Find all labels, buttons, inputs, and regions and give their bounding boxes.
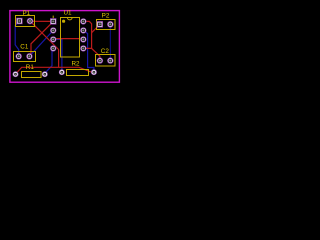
connector P2 (97, 12, 116, 29)
pad R1.2 (42, 71, 48, 77)
resistor R2 (67, 61, 89, 76)
pad U1.6 (80, 36, 86, 42)
svg-text:U1: U1 (63, 10, 72, 17)
svg-text:C1: C1 (20, 44, 29, 51)
capacitor C1 (14, 44, 36, 62)
connector P1 (16, 10, 35, 27)
pad R2.1 (59, 69, 65, 75)
wire red P1.2 to U1 pin1 (30, 20, 53, 22)
wire blue P1.1 to C1.1 (15, 21, 19, 56)
pad U1.1 (square) (50, 18, 56, 24)
pad P1.1 (square) (16, 18, 22, 24)
svg-text:R2: R2 (71, 61, 80, 68)
pad U1.8 (80, 18, 86, 24)
wire blue U1 pin7 to R2.2 (83, 30, 94, 72)
wire red P1.2 to bottom bus (30, 21, 59, 67)
wire blue C1.2 to U1 pin2 (29, 30, 53, 56)
pad U1.4 (50, 45, 56, 51)
wire blue P2.2 to C2.2 (109, 24, 111, 60)
pad R2.2 (91, 69, 97, 75)
wire blue U1 pin3 to R2.1 (53, 39, 62, 72)
pad U1.5 (80, 45, 86, 51)
pad U1.2 (50, 27, 56, 33)
wire red bottom bus R1.1 to R2.2 (16, 67, 94, 74)
wire red U1 pin3 to pin6 inside body (53, 38, 83, 40)
svg-text:C2: C2 (101, 48, 110, 55)
capacitor C2 (96, 48, 116, 66)
pad P1.2 (round) (27, 18, 34, 25)
pad R1.1 (13, 71, 19, 77)
svg-text:P2: P2 (102, 12, 110, 19)
pad C1.1 (16, 53, 22, 59)
wire red U1 pin5 to C2.1 (83, 48, 100, 60)
pad C1.2 (26, 53, 32, 59)
svg-text:R1: R1 (26, 64, 35, 71)
pad P2.1 (square) (97, 21, 103, 27)
pad C2.1 (97, 57, 103, 63)
wire red U1 pin1 to C1.2 (30, 22, 54, 57)
wire red U1 pin8 down right side (83, 21, 91, 48)
pad P2.2 (round) (107, 21, 114, 28)
pad U1.7 (80, 27, 86, 33)
resistor R1 (22, 64, 42, 77)
wire red P2.1 joining vertical (92, 25, 100, 33)
board edge outline (10, 11, 120, 83)
pad U1.3 (50, 36, 56, 42)
IC U1 (53, 10, 79, 57)
wire blue U1 pin4 to R1.2 (45, 48, 53, 73)
pad C2.2 (107, 57, 113, 63)
